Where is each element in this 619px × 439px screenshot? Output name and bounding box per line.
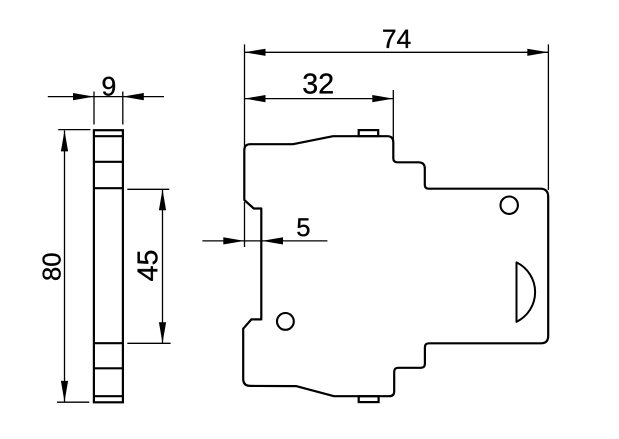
dimension + extension lines [48,44,549,402]
top mounting tab [359,130,379,136]
hole circle top right [501,197,518,214]
dim 74 ext right [547,44,549,190]
dim 32 arrow left [245,95,266,102]
dim 32 line [244,98,393,100]
dim 80 line [64,130,66,402]
dim 32 arrow right [372,95,393,102]
dim 9 arrow left (points right) [73,93,94,100]
dim 74 line [244,51,548,53]
dim 45 line [162,189,164,343]
side view segment line y368 [94,367,123,369]
dim 45 ext bottom [127,342,170,344]
dim 45 ext top [127,188,169,190]
dim 74 arrow left [245,49,266,56]
side view segment line y188 [94,187,123,189]
dim 9 ext left [93,92,95,125]
dim 5 line [202,240,327,242]
dim 74 arrow right [527,49,548,56]
side view outline (9mm strip) [94,130,123,402]
hole circle bottom left [277,313,294,330]
dim 80 arrow up [61,130,68,151]
dim text 5 [297,218,309,236]
side view segment line y343 [94,342,123,344]
dim 5 arrow right (points left) [262,237,283,244]
dim 9 line [48,96,164,98]
dim 74/5 ext left lower [244,202,246,247]
dim 9 arrow right (points left) [123,93,144,100]
dim 45 arrow up [159,189,166,210]
dim 9 ext right [122,92,124,125]
side view segment line y136 [94,135,123,137]
dim 80 ext top [58,129,90,131]
half-moon clip recess [517,262,536,321]
dim 74 ext left upper [244,44,246,149]
dim 45 arrow down [159,322,166,343]
dim text 32 [303,73,332,93]
dim 5 arrow left (points right) [223,237,244,244]
dim text 45 (rotated) [138,251,158,281]
bottom mounting tab [359,396,379,402]
dim text 9 [103,77,115,96]
dim 80 arrow down [61,381,68,402]
dim 80 ext bottom [57,401,89,403]
dim text 74 [383,30,410,48]
front view outline [243,136,548,396]
dim 32 ext right [392,90,394,143]
side view segment line y396 [94,395,123,397]
dim text 80 (rotated) [43,253,61,279]
side view segment line y162 [94,161,123,163]
arrowheads [61,49,548,402]
